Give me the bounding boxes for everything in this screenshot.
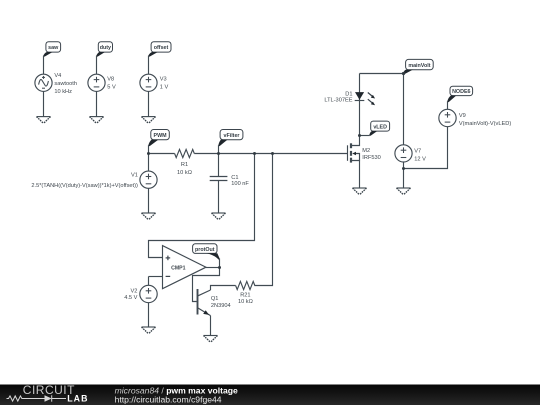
svg-text:http://circuitlab.com/c9fge44: http://circuitlab.com/c9fge44 (115, 395, 222, 405)
svg-text:12 V: 12 V (414, 156, 426, 162)
svg-text:IRF530: IRF530 (362, 155, 381, 161)
svg-text:protOut: protOut (195, 247, 215, 253)
svg-text:10 kΩ: 10 kΩ (238, 299, 253, 305)
svg-text:V(mainVolt)-V(vLED): V(mainVolt)-V(vLED) (459, 121, 511, 127)
svg-text:D1: D1 (345, 91, 352, 97)
svg-text:V1: V1 (131, 172, 138, 178)
svg-text:LAB: LAB (67, 394, 88, 404)
svg-text:4.5 V: 4.5 V (124, 295, 137, 301)
svg-text:2N3904: 2N3904 (211, 303, 231, 309)
svg-text:10 kΩ: 10 kΩ (177, 170, 192, 176)
svg-text:V4: V4 (54, 73, 61, 79)
svg-text:LTL-307EE: LTL-307EE (324, 98, 352, 104)
svg-text:V7: V7 (414, 149, 421, 155)
svg-text:1 V: 1 V (160, 85, 169, 91)
svg-text:CMP1: CMP1 (171, 265, 186, 271)
svg-text:sawtooth: sawtooth (54, 81, 77, 87)
svg-text:NODE6: NODE6 (452, 89, 470, 95)
svg-text:mainVolt: mainVolt (408, 63, 430, 69)
svg-text:R1: R1 (181, 162, 188, 168)
svg-text:V2: V2 (130, 289, 137, 295)
svg-text:V3: V3 (160, 77, 167, 83)
svg-text:offset: offset (154, 45, 169, 51)
svg-text:V9: V9 (459, 113, 466, 119)
svg-text:PWM: PWM (154, 133, 168, 139)
svg-text:2.5*(TANH((V(duty)-V(saw))*1k): 2.5*(TANH((V(duty)-V(saw))*1k)+V(offset)… (31, 183, 138, 189)
svg-text:vFilter: vFilter (223, 133, 239, 139)
svg-text:R21: R21 (240, 292, 250, 298)
svg-text:100 nF: 100 nF (231, 181, 249, 187)
svg-text:10 kHz: 10 kHz (54, 89, 72, 95)
svg-text:5 V: 5 V (107, 85, 116, 91)
svg-text:duty: duty (100, 45, 111, 51)
svg-text:vLED: vLED (373, 124, 387, 130)
svg-text:saw: saw (48, 45, 59, 51)
svg-text:Q1: Q1 (211, 296, 219, 302)
svg-text:M2: M2 (362, 148, 370, 154)
svg-text:V8: V8 (107, 77, 114, 83)
